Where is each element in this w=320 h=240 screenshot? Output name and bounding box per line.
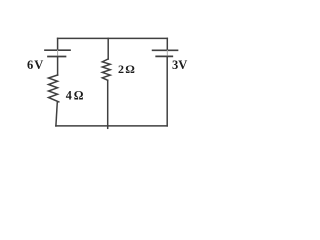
- wire top: [58, 37, 168, 39]
- resistor R1 (4 Ω) zigzag: [49, 75, 59, 102]
- wire resistor R2 to bottom node (with overshoot): [107, 80, 109, 128]
- svg-text:V: V: [178, 58, 187, 72]
- wire through battery B2 plates (faint): [166, 50, 168, 56]
- wire resistor R1 to bottom-left corner: [56, 102, 57, 126]
- resistor R2 (2 Ω) zigzag: [102, 59, 110, 80]
- wire middle-top (top node to resistor R2): [107, 38, 109, 59]
- battery B2 (3 V) short plate: [156, 55, 172, 57]
- battery B1 (6 V) short plate: [48, 56, 66, 58]
- svg-text:V: V: [34, 58, 43, 72]
- svg-text:Ω: Ω: [125, 62, 135, 76]
- wire left-top (node A to battery B1): [57, 38, 59, 50]
- battery B1 (6 V) long plate: [45, 49, 70, 51]
- wire battery B2 to bottom-right corner: [166, 56, 168, 126]
- wire battery B1 to resistor R1: [57, 57, 59, 76]
- svg-text:2: 2: [118, 62, 124, 76]
- svg-text:4: 4: [66, 88, 72, 102]
- wire right-top (node to battery B2): [166, 38, 168, 50]
- wire through battery B1 plates (faint): [57, 50, 59, 56]
- svg-text:6: 6: [27, 58, 33, 72]
- battery B2 (3 V) long plate: [153, 49, 178, 51]
- wire bottom: [56, 125, 167, 127]
- svg-text:Ω: Ω: [74, 88, 84, 102]
